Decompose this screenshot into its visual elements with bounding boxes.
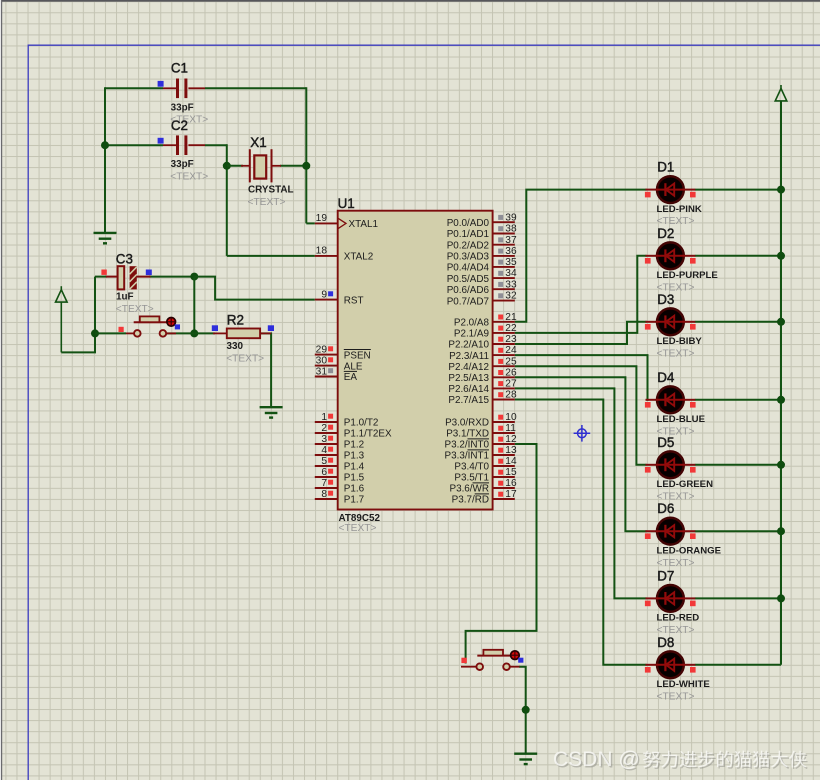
- node rail D5: [777, 461, 785, 469]
- svg-text:P2.3/A11: P2.3/A11: [449, 351, 489, 362]
- svg-text:D5: D5: [657, 435, 674, 450]
- marker red button2: [461, 658, 466, 663]
- wire P2.1 to D2: [515, 256, 647, 333]
- node rail D7: [777, 594, 785, 602]
- pin 11 P3.1/TXD: [446, 423, 516, 440]
- svg-text:P1.4: P1.4: [344, 462, 365, 473]
- svg-text:P0.3/AD3: P0.3/AD3: [447, 252, 490, 263]
- svg-text:CRYSTAL: CRYSTAL: [248, 185, 294, 196]
- wire D6 to rail: [695, 530, 781, 532]
- svg-text:<TEXT>: <TEXT>: [339, 523, 377, 534]
- svg-text:D6: D6: [657, 501, 674, 516]
- svg-text:29: 29: [316, 344, 328, 355]
- wire D5 to rail: [695, 464, 781, 466]
- svg-text:15: 15: [505, 467, 517, 478]
- svg-text:LED-BIBY: LED-BIBY: [657, 336, 703, 347]
- pin 3 P1.2: [315, 434, 364, 451]
- wire P2.5 to D6: [515, 377, 647, 531]
- pin 14 P3.4/T0: [454, 456, 517, 473]
- svg-text:36: 36: [505, 246, 517, 257]
- svg-text:12: 12: [505, 434, 517, 445]
- pin 25 P2.4/A12: [448, 356, 517, 373]
- wire P2.6 to D7: [515, 388, 647, 598]
- LED D6: [645, 518, 696, 545]
- node rail D3: [777, 318, 785, 326]
- svg-text:XTAL2: XTAL2: [344, 252, 373, 263]
- svg-text:EA: EA: [344, 372, 358, 383]
- wire P2.0 to D1: [515, 190, 647, 322]
- svg-text:P3.7/RD: P3.7/RD: [452, 495, 489, 506]
- node below button2: [522, 706, 530, 714]
- wire P2.3 to D4: [515, 355, 648, 400]
- svg-text:P1.3: P1.3: [344, 451, 365, 462]
- svg-text:ALE: ALE: [344, 361, 363, 372]
- svg-text:34: 34: [505, 268, 517, 279]
- node rail D6: [777, 527, 785, 535]
- wire P2.7 to D8: [515, 400, 647, 665]
- svg-text:1uF: 1uF: [116, 292, 134, 303]
- svg-text:330: 330: [227, 341, 244, 352]
- marker red C3: [101, 270, 106, 275]
- wire XTAL1: [306, 222, 315, 224]
- node R2 left junction: [190, 329, 198, 337]
- svg-text:39: 39: [505, 212, 517, 223]
- svg-text:19: 19: [316, 213, 328, 224]
- svg-text:LED-PINK: LED-PINK: [657, 204, 702, 215]
- svg-text:P2.1/A9: P2.1/A9: [454, 329, 490, 340]
- wire D4 to rail: [695, 399, 781, 401]
- svg-text:P0.5/AD5: P0.5/AD5: [447, 274, 490, 285]
- pin 1 P1.0/T2: [315, 412, 379, 429]
- svg-text:P0.0/AD0: P0.0/AD0: [447, 218, 490, 229]
- pin 32 P0.7/AD7: [447, 291, 517, 308]
- svg-text:14: 14: [505, 456, 517, 467]
- pin 21 P2.0/A8: [454, 312, 517, 329]
- svg-text:<TEXT>: <TEXT>: [226, 353, 264, 364]
- svg-text:24: 24: [505, 345, 517, 356]
- svg-text:16: 16: [505, 478, 517, 489]
- LED D7: [645, 585, 696, 612]
- svg-text:P1.7: P1.7: [344, 495, 364, 506]
- wire C3 left lead: [95, 276, 107, 278]
- window edge left: [0, 0, 1, 780]
- svg-text:X1: X1: [250, 135, 266, 150]
- pin 4 P1.3: [315, 445, 365, 462]
- svg-text:P2.6/A14: P2.6/A14: [448, 384, 489, 395]
- svg-text:D3: D3: [657, 292, 674, 307]
- node C3 right junction: [190, 273, 198, 281]
- svg-text:23: 23: [505, 334, 517, 345]
- svg-text:P1.2: P1.2: [344, 440, 364, 451]
- wire button1 right: [167, 332, 194, 334]
- marker blue R2 left: [212, 325, 218, 331]
- svg-text:LED-ORANGE: LED-ORANGE: [657, 546, 722, 557]
- svg-text:P3.1/TXD: P3.1/TXD: [446, 429, 489, 440]
- svg-text:P0.1/AD1: P0.1/AD1: [447, 229, 490, 240]
- ground (C1/C2): [104, 232, 106, 233]
- node X1 left junction: [223, 162, 231, 170]
- capacitor C3 (polarized): [106, 276, 118, 278]
- marker blue C2: [158, 138, 164, 144]
- svg-text:D1: D1: [657, 160, 674, 175]
- svg-text:27: 27: [505, 379, 517, 390]
- power arrow VCC (left): [60, 286, 62, 292]
- IC U1 AT89C52 body: [338, 211, 493, 510]
- svg-text:<TEXT>: <TEXT>: [657, 691, 695, 702]
- pin 23 P2.2/A10: [448, 334, 517, 351]
- svg-text:<TEXT>: <TEXT>: [657, 348, 695, 359]
- wire P3.2 to button2: [466, 444, 537, 664]
- svg-text:21: 21: [505, 312, 517, 323]
- window edge top: [0, 0, 820, 2]
- node rail D4: [777, 396, 785, 404]
- svg-text:9: 9: [321, 289, 327, 300]
- svg-text:P1.5: P1.5: [344, 473, 365, 484]
- pin 30 ALE: [315, 355, 363, 372]
- svg-text:P1.1/T2EX: P1.1/T2EX: [344, 429, 392, 440]
- marker blue R2 right: [268, 325, 274, 331]
- pin 39 P0.0/AD0: [447, 212, 517, 229]
- svg-text:P2.7/A15: P2.7/A15: [448, 395, 489, 406]
- svg-text:P0.2/AD2: P0.2/AD2: [447, 240, 489, 251]
- wire C1 left: [105, 87, 163, 89]
- svg-text:LED-GREEN: LED-GREEN: [657, 479, 714, 490]
- push button RESET: [126, 332, 134, 334]
- svg-text:35: 35: [505, 257, 517, 268]
- power arrow VCC (right): [780, 85, 782, 91]
- svg-text:26: 26: [505, 367, 517, 378]
- svg-text:P2.2/A10: P2.2/A10: [448, 340, 489, 351]
- wire R2 right vertical to GND: [260, 333, 271, 407]
- svg-text:1: 1: [321, 412, 327, 423]
- svg-text:LED-PURPLE: LED-PURPLE: [657, 270, 719, 281]
- marker blue button1: [175, 324, 180, 329]
- wire D3 to rail: [695, 321, 781, 323]
- wire X1 left lead: [227, 165, 243, 167]
- svg-text:7: 7: [321, 478, 327, 489]
- pin 16 P3.6/WR: [449, 478, 516, 495]
- pin 28 P2.7/A15: [448, 390, 517, 407]
- pin 29 PSEN: [315, 344, 371, 361]
- svg-text:C2: C2: [171, 118, 188, 133]
- svg-text:P2.4/A12: P2.4/A12: [448, 362, 489, 373]
- svg-text:31: 31: [316, 366, 328, 377]
- wire P2.2 to D3: [515, 322, 647, 344]
- node C2-left junction: [101, 141, 109, 149]
- origin marker (blue crosshair): [574, 425, 591, 442]
- svg-text:CSDN @: CSDN @: [553, 748, 640, 771]
- power rail right vertical: [780, 101, 782, 665]
- svg-text:P3.2/INT0: P3.2/INT0: [445, 440, 490, 451]
- svg-text:4: 4: [321, 445, 327, 456]
- marker red button1: [119, 327, 124, 332]
- svg-text:PSEN: PSEN: [344, 350, 371, 361]
- svg-text:RST: RST: [344, 295, 364, 306]
- LED D3: [645, 308, 696, 335]
- wire C2 left: [105, 144, 163, 146]
- button KEY indicator: [511, 651, 520, 660]
- wire R2 left lead: [194, 332, 215, 334]
- pin 31 EA: [315, 366, 358, 383]
- resistor R2: [213, 332, 227, 334]
- svg-text:18: 18: [316, 246, 328, 257]
- wire D8 to rail: [695, 664, 781, 666]
- wire right vertical C1-XTAL1: [305, 87, 307, 223]
- wire X1 right lead: [280, 165, 306, 167]
- pin 33 P0.6/AD6: [447, 279, 517, 296]
- wire D2 to rail: [695, 255, 781, 257]
- svg-text:33: 33: [505, 279, 517, 290]
- wire C3 right lead: [150, 276, 195, 278]
- push button KEY (bottom): [461, 666, 477, 668]
- svg-text:P3.3/INT1: P3.3/INT1: [445, 451, 490, 462]
- svg-text:P0.7/AD7: P0.7/AD7: [447, 296, 489, 307]
- pin 9 RST: [315, 289, 364, 306]
- watermark CSDN: [555, 750, 808, 773]
- wire D7 to rail: [695, 597, 781, 599]
- pin 12 P3.2/INT0: [445, 434, 517, 451]
- svg-text:C3: C3: [116, 251, 133, 266]
- svg-text:32: 32: [505, 291, 517, 302]
- pin 7 P1.6: [315, 478, 365, 495]
- pin 27 P2.6/A14: [448, 379, 517, 396]
- svg-text:11: 11: [505, 423, 516, 434]
- pin 35 P0.4/AD4: [447, 257, 517, 274]
- wire X1 left vertical: [226, 144, 228, 256]
- pin 19 XTAL1: [315, 213, 379, 230]
- wire left vertical C1-GND: [104, 87, 106, 233]
- svg-text:P3.4/T0: P3.4/T0: [454, 462, 489, 473]
- svg-text:D2: D2: [657, 226, 674, 241]
- svg-text:3: 3: [321, 434, 327, 445]
- pin 8 P1.7: [315, 489, 364, 506]
- svg-text:D4: D4: [657, 370, 675, 385]
- capacitor C1: [163, 87, 177, 89]
- marker blue C1: [158, 81, 164, 87]
- capacitor C2: [163, 144, 177, 146]
- svg-text:8: 8: [321, 489, 327, 500]
- marker blue C3: [146, 270, 152, 276]
- svg-text:U1: U1: [338, 196, 355, 211]
- wire XTAL2: [227, 255, 315, 257]
- wire button2 right to GND: [519, 667, 526, 754]
- LED D8: [645, 651, 696, 678]
- svg-text:LED-RED: LED-RED: [657, 613, 700, 624]
- svg-text:10: 10: [505, 412, 517, 423]
- LED D2: [645, 242, 696, 269]
- pin 38 P0.1/AD1: [447, 224, 517, 241]
- svg-text:<TEXT>: <TEXT>: [248, 197, 286, 208]
- svg-text:P0.6/AD6: P0.6/AD6: [447, 285, 490, 296]
- svg-text:<TEXT>: <TEXT>: [657, 558, 695, 569]
- wire junction vertical: [193, 277, 195, 334]
- svg-text:C1: C1: [171, 61, 188, 76]
- svg-text:17: 17: [505, 489, 517, 500]
- pin 37 P0.2/AD2: [447, 235, 517, 252]
- svg-text:R2: R2: [227, 312, 244, 327]
- pin 34 P0.5/AD5: [447, 268, 517, 285]
- pin 36 P0.3/AD3: [447, 246, 517, 263]
- svg-text:33pF: 33pF: [171, 159, 194, 170]
- svg-text:P0.4/AD4: P0.4/AD4: [447, 263, 490, 274]
- svg-text:13: 13: [505, 445, 517, 456]
- svg-text:XTAL1: XTAL1: [349, 219, 379, 230]
- wire C2 right: [205, 144, 227, 146]
- pin 6 P1.5: [315, 467, 365, 484]
- wire C1 right: [205, 87, 306, 89]
- LED D4: [645, 386, 696, 413]
- crystal X1: [241, 165, 250, 167]
- svg-text:P2.5/A13: P2.5/A13: [448, 373, 489, 384]
- node rail D2: [777, 252, 785, 260]
- pin 5 P1.4: [315, 456, 365, 473]
- pin 18 XTAL2: [315, 246, 373, 263]
- svg-text:<TEXT>: <TEXT>: [170, 172, 208, 183]
- pin 17 P3.7/RD: [452, 489, 517, 506]
- wire D1 to rail: [695, 189, 781, 191]
- pin 13 P3.3/INT1: [445, 445, 517, 462]
- svg-text:30: 30: [316, 355, 328, 366]
- svg-text:6: 6: [321, 467, 327, 478]
- svg-text:28: 28: [505, 390, 517, 401]
- svg-text:LED-WHITE: LED-WHITE: [657, 679, 711, 690]
- pin 24 P2.3/A11: [449, 345, 517, 362]
- svg-text:P1.6: P1.6: [344, 484, 365, 495]
- pin 15 P3.5/T1: [454, 467, 517, 484]
- svg-text:33pF: 33pF: [171, 102, 194, 113]
- svg-text:P1.0/T2: P1.0/T2: [344, 418, 379, 429]
- node rail D1: [777, 186, 785, 194]
- pin 26 P2.5/A13: [448, 367, 517, 384]
- svg-text:22: 22: [505, 323, 517, 334]
- wire RST route: [194, 277, 314, 300]
- LED D1: [645, 176, 696, 203]
- svg-text:D7: D7: [657, 568, 674, 583]
- node button-row junction left: [91, 329, 99, 337]
- wire power to C3: [61, 277, 95, 353]
- svg-text:D8: D8: [657, 635, 674, 650]
- button RESET indicator: [167, 318, 176, 327]
- svg-text:37: 37: [505, 235, 517, 246]
- svg-text:P3.0/RXD: P3.0/RXD: [445, 418, 489, 429]
- svg-text:2: 2: [321, 423, 327, 434]
- svg-text:P2.0/A8: P2.0/A8: [454, 318, 490, 329]
- pin 10 P3.0/RXD: [445, 412, 517, 429]
- svg-text:P3.5/T1: P3.5/T1: [454, 473, 489, 484]
- ground (R2): [260, 406, 283, 408]
- node X1 right junction: [302, 162, 310, 170]
- svg-text:38: 38: [505, 224, 517, 235]
- svg-text:<TEXT>: <TEXT>: [116, 304, 154, 315]
- svg-text:P3.6/WR: P3.6/WR: [449, 484, 489, 495]
- wire button1 left: [95, 332, 126, 334]
- pin 22 P2.1/A9: [454, 323, 517, 340]
- pin 2 P1.1/T2EX: [315, 423, 392, 440]
- LED D5: [645, 451, 696, 478]
- marker blue button2: [518, 658, 523, 663]
- wire P2.4 to D5: [515, 366, 647, 465]
- svg-text:25: 25: [505, 356, 517, 367]
- svg-text:5: 5: [321, 456, 327, 467]
- svg-text:LED-BLUE: LED-BLUE: [657, 414, 706, 425]
- ground (button2): [514, 753, 537, 755]
